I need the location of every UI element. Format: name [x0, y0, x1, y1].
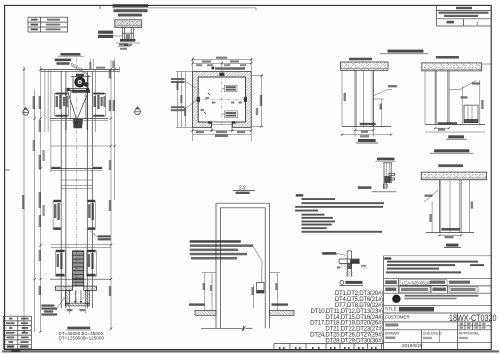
machine beam fixing detail (top center)	[98, 4, 256, 46]
dims right	[461, 86, 463, 125]
shaft horizontal floor lines	[50, 118, 108, 120]
svg-text:TITLE:: TITLE:	[385, 307, 398, 312]
title with circle	[340, 281, 344, 285]
long vertical dimension / wall lines	[23, 66, 25, 332]
revision table top right	[437, 5, 492, 26]
socket box	[464, 105, 478, 123]
top dimension chains	[193, 59, 252, 61]
section datum mark right	[135, 106, 141, 114]
pit sump walls	[65, 290, 69, 304]
dim stack level A right	[92, 93, 105, 117]
svg-text:GS: GS	[394, 297, 400, 301]
dim stack level B right	[87, 200, 95, 230]
spec text block	[190, 240, 241, 243]
floor slabs hatched	[195, 310, 216, 315]
door frame double lines	[216, 203, 270, 328]
right dim lines	[95, 70, 97, 132]
hatched shaft walls (ring)	[193, 72, 252, 128]
pit small dims	[67, 309, 73, 311]
jambs	[354, 70, 356, 126]
bottom dims	[355, 129, 374, 131]
dim stack level B left	[53, 200, 61, 230]
svg-text:CHECKED: CHECKED	[423, 331, 442, 336]
svg-text:LCA-025-0510(: LCA-025-0510(	[402, 280, 431, 285]
dims above beam	[90, 59, 92, 70]
black sill pieces	[350, 260, 359, 264]
thick bottom border band	[2, 350, 499, 352]
leader 150	[449, 81, 476, 91]
lowest floor line	[50, 278, 111, 280]
border tick top	[99, 5, 101, 9]
rotated dim text blobs along left lines	[39, 96, 41, 109]
slab labels	[189, 303, 205, 305]
floor level label	[360, 123, 376, 125]
lower floor line	[51, 244, 111, 246]
note above plan	[215, 67, 245, 69]
small cells right	[458, 325, 492, 327]
hoisting height text under shaft	[67, 327, 90, 330]
leader to socket box	[253, 247, 262, 283]
section datum mark left	[23, 107, 29, 115]
left leader	[424, 190, 438, 202]
top labels above machine room	[60, 53, 80, 56]
table lines	[384, 279, 491, 343]
bottom dimension chains	[193, 130, 252, 132]
svg-text:APPROVAL: APPROVAL	[459, 331, 481, 336]
hatch at bottom of wall	[346, 271, 353, 277]
inner wall edge	[198, 77, 245, 122]
svg-text:DT=125000B=125000: DT=125000B=125000	[59, 336, 105, 341]
dim stack level C left	[56, 250, 66, 276]
row1	[398, 279, 400, 294]
dim ticks	[23, 68, 116, 332]
left dimension chains	[177, 72, 179, 128]
svg-text:DRAWN: DRAWN	[385, 331, 400, 336]
machine room floor beam	[41, 69, 120, 71]
title	[448, 135, 464, 138]
left dim	[341, 70, 343, 126]
rotated dim text blobs right	[109, 70, 111, 79]
left dim 750	[204, 273, 206, 311]
shaft walls	[60, 71, 62, 308]
right dimension chain	[261, 75, 263, 126]
svg-text:18WX-CT0320: 18WX-CT0320	[449, 312, 497, 323]
floor label	[441, 228, 460, 231]
lintel	[421, 172, 486, 180]
scale fraction mark upper	[119, 44, 128, 46]
notes text	[384, 257, 391, 259]
socket box	[257, 283, 264, 294]
left dim	[431, 202, 433, 233]
wall vertical bar	[346, 251, 348, 277]
dim stack level A left	[54, 93, 68, 117]
counterweight / buffer striped column	[73, 251, 84, 286]
right dim	[277, 273, 279, 311]
right dim	[468, 180, 470, 233]
svg-text:CUSTOMER: CUSTOMER	[385, 314, 410, 319]
title	[358, 139, 376, 142]
small dim 950	[381, 99, 383, 127]
traction machine	[75, 77, 85, 87]
centre line	[76, 58, 78, 306]
centerlines	[195, 98, 249, 100]
guide rail marks on side walls	[197, 97, 200, 102]
row3 : logo + fine print	[392, 295, 400, 303]
sill label with leader	[98, 235, 111, 237]
pit labels	[41, 305, 54, 307]
buffer arrows	[74, 290, 76, 302]
dim stack level C right	[87, 250, 97, 276]
exterior labels left with leaders	[171, 78, 196, 88]
lintel beam	[340, 62, 388, 70]
DRAWN/CHECKED/APPROVAL row	[421, 330, 423, 350]
leader 150	[374, 90, 393, 96]
interior label boxes	[222, 85, 237, 91]
pit floor hatched bands	[56, 286, 73, 290]
socket dim	[253, 284, 255, 308]
bottom dim	[439, 234, 461, 236]
spec table top-left	[28, 17, 68, 32]
bottom dims	[435, 127, 449, 129]
centre title between top details	[388, 50, 424, 53]
row2	[430, 286, 432, 293]
title above	[434, 149, 469, 152]
leader fan to machine	[71, 63, 91, 77]
floor label	[438, 122, 458, 124]
hook mark on top wall	[219, 73, 224, 76]
embed label	[349, 58, 372, 61]
door opening in bottom wall	[211, 122, 213, 127]
horizontal bar	[339, 258, 360, 260]
ground line with break	[201, 327, 242, 329]
small interior marks	[206, 97, 209, 99]
floor line	[342, 126, 391, 128]
car sling and crosshead	[67, 88, 70, 91]
svg-text:2018/6/29: 2018/6/29	[402, 343, 423, 348]
jambs	[438, 180, 440, 233]
frame left edge	[383, 256, 385, 350]
